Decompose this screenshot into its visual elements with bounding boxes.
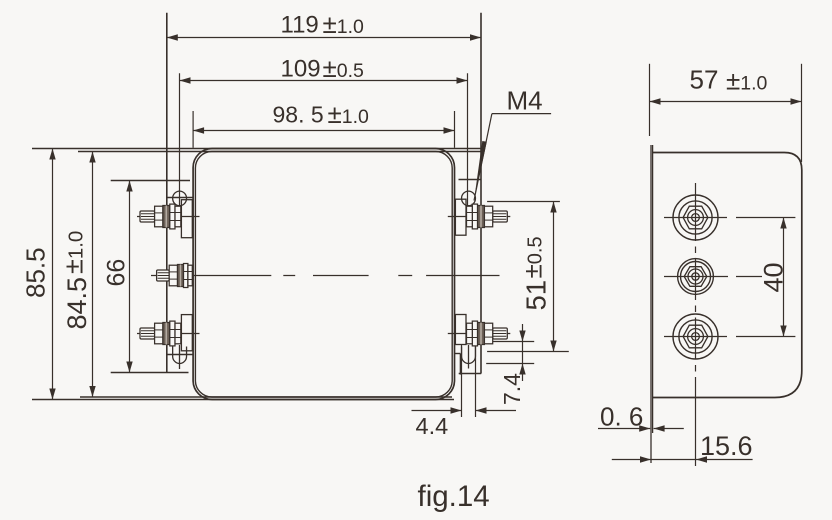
svg-text:85.5: 85.5 bbox=[21, 247, 51, 298]
svg-text:119: 119 bbox=[281, 12, 319, 39]
svg-text:M4: M4 bbox=[507, 86, 543, 116]
svg-text:109: 109 bbox=[281, 56, 321, 83]
svg-text:fig.14: fig.14 bbox=[418, 480, 490, 513]
svg-text:66: 66 bbox=[103, 259, 131, 287]
svg-text:7.4: 7.4 bbox=[499, 373, 525, 405]
svg-text:57: 57 bbox=[690, 65, 719, 95]
svg-text:51: 51 bbox=[521, 280, 552, 311]
svg-text:84.5: 84.5 bbox=[62, 277, 92, 330]
svg-text:4.4: 4.4 bbox=[416, 413, 449, 439]
svg-text:15.6: 15.6 bbox=[700, 431, 753, 461]
svg-text:40: 40 bbox=[759, 262, 789, 292]
svg-text:98. 5: 98. 5 bbox=[273, 102, 324, 128]
svg-text:0. 6: 0. 6 bbox=[600, 402, 643, 432]
